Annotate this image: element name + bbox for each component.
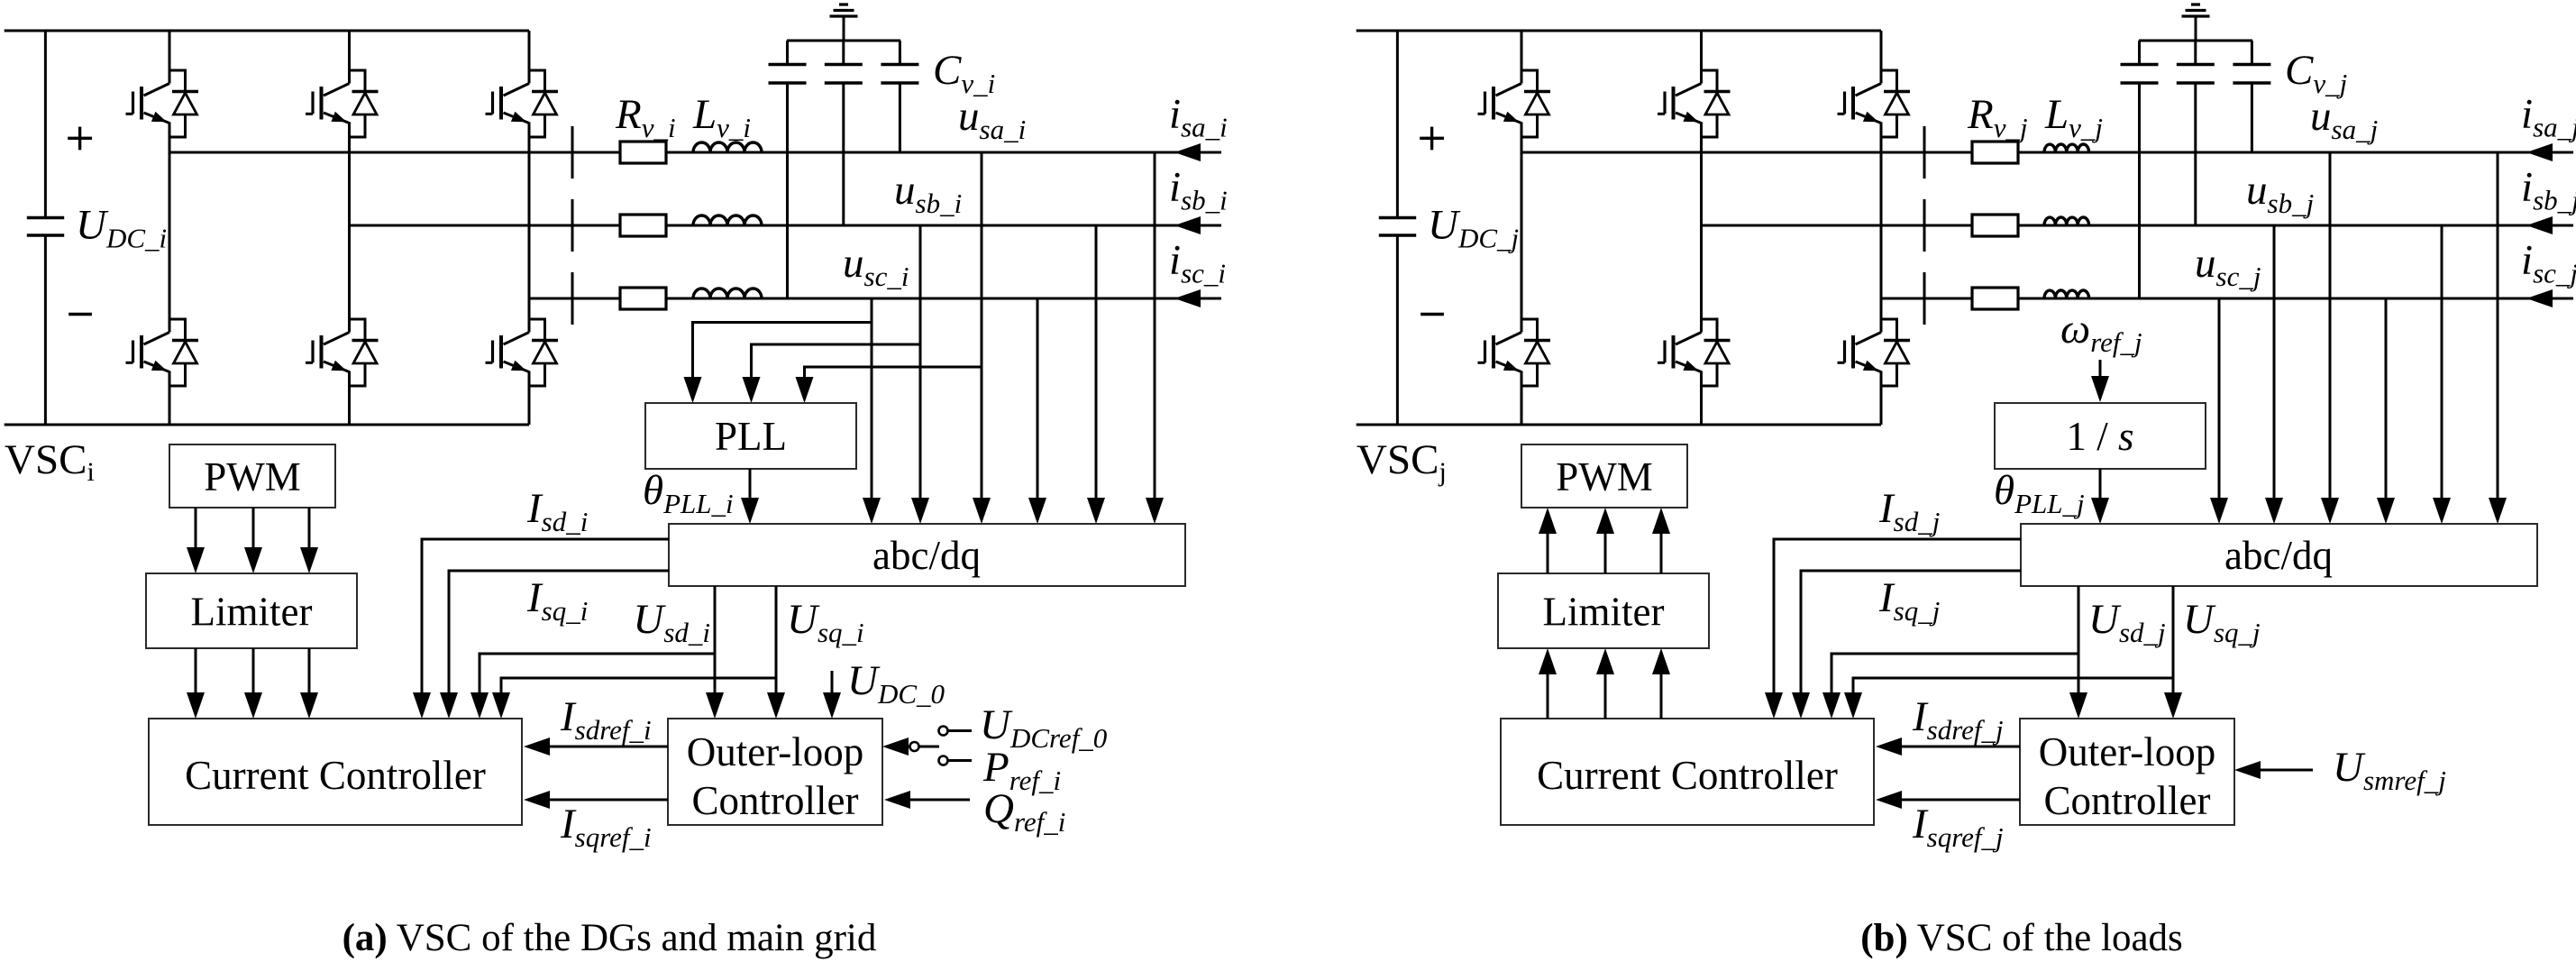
transistor Qia1 (IGBT) [126, 84, 170, 124]
wire: u_sc_i tap to abc/dq [871, 298, 873, 501]
wire: DC bus bottom rail (VSC_j) [1357, 424, 1881, 426]
wire: throw lead U_DCref_0 [948, 729, 973, 732]
wire: Limiter to Current Controller [195, 648, 197, 696]
wire: u_sa_j tap to abc/dq [2329, 152, 2332, 501]
capacitor C_v_i (phase c) [769, 41, 807, 298]
transistor Qib2 (IGBT) [306, 333, 350, 372]
wire: leg a midpoint segment (VSC_j) [1521, 123, 1523, 333]
wire: u_sb_j tap to abc/dq [2273, 225, 2276, 501]
wire: PWM to Limiter [308, 508, 311, 551]
wire: u_sa_i tap to abc/dq [981, 152, 983, 501]
svg-text:(a) VSC of the DGs and main gr: (a) VSC of the DGs and main grid [343, 917, 877, 959]
arrow: reference select into Outer-loop Controller [882, 738, 909, 756]
tick: measuring break phase b (VSC_j) [1923, 199, 1926, 252]
tick: measuring break phase c (VSC_j) [1923, 272, 1926, 325]
arrow: U_sq_i into Outer-loop Controller [767, 692, 785, 719]
arrow: I_sqref_i into Current Controller [524, 791, 550, 809]
arrow: theta_PLL_j into abc/dq [2091, 498, 2109, 524]
arrow: I_sd_j into Current Controller [1765, 692, 1783, 719]
arrow: into PWM [1539, 508, 1557, 534]
svg-text:Limiter: Limiter [1543, 590, 1665, 635]
wire: leg c collector segment (VSC_j) [1880, 31, 1883, 84]
svg-text:PWM: PWM [1556, 454, 1653, 499]
arrow: U_sd_j into Outer-loop Controller [2069, 692, 2087, 719]
wire: I_sqref_i to Current Controller [546, 799, 668, 802]
wire: DC bus bottom rail (VSC_i) [5, 424, 529, 426]
wire: U_smref_j input [2257, 769, 2313, 772]
capacitor U_DC_j (DC link) [1379, 31, 1416, 425]
wire: leg c midpoint segment (VSC_j) [1880, 123, 1883, 333]
arrow: into Limiter [187, 547, 205, 573]
arrow: i_sc_i into abc/dq [1028, 498, 1046, 524]
arrow: i_sa_i into abc/dq [1146, 498, 1164, 524]
arrow: into Current Controller [244, 692, 262, 719]
label - (DC negative) [69, 313, 92, 316]
switch pole contact [910, 742, 919, 751]
arrow: theta_PLL_i into abc/dq [741, 498, 759, 524]
wire: U_sd_j from abc/dq to Outer-loop Controller [2078, 586, 2080, 696]
wire: DC bus top rail (VSC_j) [1357, 30, 1881, 32]
wire: I_sd_i from abc/dq to Current Controller [422, 539, 669, 696]
diode Qic2D (antiparallel) [529, 319, 558, 386]
wire: U_DC_0 input [831, 671, 834, 696]
wire: phase c line (VSC_i) [529, 298, 1221, 300]
block Current Controller [1501, 719, 1874, 825]
arrow: U_smref_j into Outer-loop Controller [2234, 761, 2261, 779]
arrow: u_sb_j into abc/dq [2265, 498, 2283, 524]
wire: leg b collector segment (VSC_i) [348, 31, 351, 84]
arrow: into Limiter [1596, 648, 1614, 674]
diode Qjb1D (antiparallel) [1702, 70, 1731, 137]
arrow: I_sd_i into Current Controller [413, 692, 431, 719]
arrow: u_sa_j into abc/dq [2321, 498, 2339, 524]
svg-text:Controller: Controller [2044, 778, 2211, 823]
transistor Qjc1 (IGBT) [1838, 84, 1882, 124]
arrow: i_sb_i into abc/dq [1087, 498, 1105, 524]
arrow: into Limiter [300, 547, 318, 573]
block Current Controller [149, 719, 522, 825]
capacitor C_v_i (phase b) [825, 41, 863, 225]
wire: U_sd_i from abc/dq to Outer-loop Controller [714, 586, 717, 696]
wire: i_sc_j tap to abc/dq [2385, 298, 2388, 501]
diode Qjb2D (antiparallel) [1702, 319, 1731, 386]
wire: voltage tap to PLL [805, 367, 982, 380]
diode Qib2D (antiparallel) [350, 319, 379, 386]
diode Qia1D (antiparallel) [169, 70, 198, 137]
wire: theta_PLL_j output [2099, 469, 2102, 501]
arrow: I_sq_i into Current Controller [440, 692, 458, 719]
current arrow i_sc_i [1174, 289, 1201, 307]
tick: measuring break phase b (VSC_i) [571, 199, 574, 252]
svg-text:(b) VSC of the loads: (b) VSC of the loads [1860, 917, 2183, 959]
svg-text:Outer-loop: Outer-loop [2039, 729, 2216, 774]
wire: I_sq_i from abc/dq to Current Controller [449, 571, 669, 696]
wire: Q_ref_i input [907, 799, 970, 802]
wire: PWM to Limiter [195, 508, 197, 551]
diode Qja1D (antiparallel) [1521, 70, 1550, 137]
arrow: I_sdref_i into Current Controller [524, 738, 550, 756]
wire: phase b line (VSC_i) [350, 224, 1222, 227]
arrow: into Limiter [244, 547, 262, 573]
wire: theta_PLL_i output [749, 469, 752, 501]
capacitor C_v_j (phase b) [2177, 41, 2215, 225]
wire: leg a midpoint segment (VSC_i) [169, 123, 171, 333]
wire: i_sc_i tap to abc/dq [1037, 298, 1039, 501]
wire: Current Controller to Limiter [1604, 671, 1607, 719]
arrow: into PLL [684, 377, 702, 403]
diode Qib1D (antiparallel) [350, 70, 379, 137]
inductor L_v_j phase b [2044, 217, 2089, 225]
arrow: into PWM [1652, 508, 1670, 534]
transistor Qjc2 (IGBT) [1838, 333, 1882, 372]
arrow: i_sb_j into abc/dq [2433, 498, 2451, 524]
capacitor C_v_i (phase a) [881, 41, 918, 152]
block 1/s integrator [1995, 403, 2206, 469]
block Limiter [146, 573, 357, 648]
wire: i_sb_i tap to abc/dq [1095, 225, 1098, 501]
capacitor U_DC_i (DC link) [27, 31, 64, 425]
label + (DC positive) [1420, 127, 1444, 151]
wire: switch pole lead [905, 746, 910, 748]
inductor L_v_j phase a [2044, 144, 2089, 152]
block Limiter [1498, 573, 1709, 648]
current arrow i_sa_j [2526, 143, 2553, 161]
arrow: into Limiter [1539, 648, 1557, 674]
diode Qjc2D (antiparallel) [1881, 319, 1910, 386]
wire: phase b line (VSC_j) [1702, 224, 2574, 227]
switch throw contact P_ref [939, 756, 948, 765]
arrow: into Current Controller [187, 692, 205, 719]
arrow: U_DC_0 into Outer-loop Controller [823, 692, 841, 719]
diode Qia2D (antiparallel) [169, 319, 198, 386]
block abc/dq [669, 524, 1185, 586]
svg-text:Current Controller: Current Controller [185, 753, 486, 798]
tick: measuring break phase a (VSC_j) [1923, 126, 1926, 179]
transistor Qic2 (IGBT) [486, 333, 530, 372]
wire: Limiter to Current Controller [308, 648, 311, 696]
current arrow i_sb_i [1174, 216, 1201, 234]
label + (DC positive) [68, 127, 92, 151]
wire: u_sc_j tap to abc/dq [2218, 298, 2221, 501]
arrow: into 1/s integrator [2091, 376, 2109, 402]
resistor R_v_j phase a [1972, 142, 2018, 163]
wire: Current Controller to Limiter [1547, 671, 1549, 719]
svg-text:Outer-loop: Outer-loop [687, 729, 864, 774]
arrow: U_sd_i branch into Current Controller [470, 692, 489, 719]
ground (filter bank VSC_j) [2182, 5, 2210, 41]
arrow: U_sd_i into Outer-loop Controller [706, 692, 724, 719]
current arrow i_sa_i [1174, 143, 1201, 161]
block PWM [1521, 444, 1687, 508]
wire: u_sb_i tap to abc/dq [919, 225, 922, 501]
block Outer-loop Controller [668, 719, 882, 825]
arrow: I_sq_j into Current Controller [1792, 692, 1810, 719]
arrow: into Current Controller [300, 692, 318, 719]
svg-text:abc/dq: abc/dq [872, 533, 981, 578]
wire: voltage tap to PLL [693, 323, 872, 381]
wire: leg b midpoint segment (VSC_j) [1700, 123, 1703, 333]
resistor R_v_i phase b [620, 215, 666, 236]
svg-text:VSCj: VSCj [1357, 436, 1447, 487]
transistor Qia2 (IGBT) [126, 333, 170, 372]
wire: U_sq_i branch to Current Controller [501, 678, 776, 696]
current arrow i_sb_j [2526, 216, 2553, 234]
inductor L_v_i phase c [693, 289, 762, 298]
arrow: into PLL [796, 377, 814, 403]
wire: leg a emitter segment (VSC_i) [169, 371, 171, 426]
block abc/dq [2021, 524, 2537, 586]
wire: leg b collector segment (VSC_j) [1700, 31, 1703, 84]
arrow: i_sa_j into abc/dq [2489, 498, 2507, 524]
wire: leg c emitter segment (VSC_i) [528, 371, 531, 426]
wire: capacitor bank bus (VSC_j) [2139, 40, 2252, 42]
transistor Qjb2 (IGBT) [1658, 333, 1702, 372]
resistor R_v_i phase a [620, 142, 666, 163]
arrow: into PWM [1596, 508, 1614, 534]
wire: i_sa_j tap to abc/dq [2497, 152, 2499, 501]
diode Qjc1D (antiparallel) [1881, 70, 1910, 137]
resistor R_v_j phase c [1972, 288, 2018, 309]
capacitor C_v_j (phase a) [2233, 41, 2270, 152]
resistor R_v_i phase c [620, 288, 666, 309]
wire: U_sq_i from abc/dq to Outer-loop Controller [775, 586, 778, 696]
label - (DC negative) [1420, 313, 1444, 316]
arrow: U_sq_j into Outer-loop Controller [2164, 692, 2182, 719]
block Outer-loop Controller [2020, 719, 2234, 825]
wire: I_sdref_i to Current Controller [546, 746, 668, 748]
svg-text:VSCi: VSCi [5, 436, 95, 487]
svg-text:abc/dq: abc/dq [2224, 533, 2333, 578]
wire: leg a emitter segment (VSC_j) [1521, 371, 1523, 426]
wire: capacitor bank bus (VSC_i) [787, 40, 900, 42]
wire: Limiter to Current Controller [252, 648, 255, 696]
capacitor C_v_j (phase c) [2121, 41, 2159, 298]
block PWM [169, 444, 335, 508]
wire: Limiter to PWM [1660, 530, 1663, 573]
wire: throw lead P_ref [948, 759, 973, 762]
transistor Qjb1 (IGBT) [1658, 84, 1702, 124]
transistor Qja1 (IGBT) [1478, 84, 1522, 124]
tick: measuring break phase a (VSC_i) [571, 126, 574, 179]
arrow: I_sqref_j into Current Controller [1876, 791, 1902, 809]
switch blade [919, 746, 940, 748]
wire: I_sdref_j to Current Controller [1898, 746, 2020, 748]
current arrow i_sc_j [2526, 289, 2553, 307]
inductor L_v_i phase a [693, 142, 762, 152]
diode Qic1D (antiparallel) [529, 70, 558, 137]
switch throw contact U_DCref_0 [939, 727, 948, 736]
wire: phase a line (VSC_j) [1521, 151, 2573, 154]
ground (filter bank VSC_i) [830, 5, 858, 41]
svg-text:Current Controller: Current Controller [1537, 753, 1838, 798]
arrow: into PLL [743, 377, 761, 403]
wire: phase c line (VSC_j) [1881, 298, 2573, 300]
wire: DC bus top rail (VSC_i) [5, 30, 529, 32]
wire: leg c midpoint segment (VSC_i) [528, 123, 531, 333]
wire: Current Controller to Limiter [1660, 671, 1663, 719]
wire: U_sq_j from abc/dq to Outer-loop Controller [2172, 586, 2175, 696]
arrow: U_sd_j branch into Current Controller [1822, 692, 1841, 719]
wire: i_sa_i tap to abc/dq [1154, 152, 1156, 501]
wire: leg b midpoint segment (VSC_i) [348, 123, 351, 333]
wire: U_sd_i branch to Current Controller [480, 654, 715, 696]
diode Qja2D (antiparallel) [1521, 319, 1550, 386]
svg-text:PLL: PLL [715, 414, 787, 459]
wire: leg a collector segment (VSC_i) [169, 31, 171, 84]
transistor Qja2 (IGBT) [1478, 333, 1522, 372]
arrow: u_sc_j into abc/dq [2210, 498, 2228, 524]
arrow: i_sc_j into abc/dq [2377, 498, 2395, 524]
arrow: into Limiter [1652, 648, 1670, 674]
wire: omega_ref_j input [2099, 360, 2102, 380]
wire: leg a collector segment (VSC_j) [1521, 31, 1523, 84]
inductor L_v_j phase c [2044, 290, 2089, 298]
wire: I_sqref_j to Current Controller [1898, 799, 2020, 802]
wire: leg c emitter segment (VSC_j) [1880, 371, 1883, 426]
arrow: U_sq_j branch into Current Controller [1844, 692, 1862, 719]
arrow: U_sq_i branch into Current Controller [492, 692, 510, 719]
wire: leg b emitter segment (VSC_j) [1700, 371, 1703, 426]
block PLL [645, 403, 856, 469]
wire: U_sq_j branch to Current Controller [1853, 678, 2173, 696]
arrow: u_sa_i into abc/dq [973, 498, 991, 524]
arrow: I_sdref_j into Current Controller [1876, 738, 1902, 756]
wire: I_sd_j from abc/dq to Current Controller [1774, 539, 2021, 696]
wire: PWM to Limiter [252, 508, 255, 551]
wire: Limiter to PWM [1604, 530, 1607, 573]
wire: phase a line (VSC_i) [169, 151, 1221, 154]
inductor L_v_i phase b [693, 215, 762, 225]
wire: i_sb_j tap to abc/dq [2441, 225, 2444, 501]
wire: leg c collector segment (VSC_i) [528, 31, 531, 84]
wire: U_sd_j branch to Current Controller [1832, 654, 2078, 696]
svg-text:Limiter: Limiter [191, 590, 313, 635]
transistor Qic1 (IGBT) [486, 84, 530, 124]
svg-text:PWM: PWM [204, 454, 301, 499]
tick: measuring break phase c (VSC_i) [571, 272, 574, 325]
resistor R_v_j phase b [1972, 215, 2018, 236]
wire: leg b emitter segment (VSC_i) [348, 371, 351, 426]
svg-text:1 / s: 1 / s [2066, 414, 2133, 459]
arrow: u_sb_i into abc/dq [911, 498, 929, 524]
wire: I_sq_j from abc/dq to Current Controller [1801, 571, 2021, 696]
wire: voltage tap to PLL [752, 344, 921, 380]
transistor Qib1 (IGBT) [306, 84, 350, 124]
svg-text:Controller: Controller [692, 778, 859, 823]
wire: Limiter to PWM [1547, 530, 1549, 573]
arrow: Q_ref_i into Outer-loop Controller [884, 791, 910, 809]
arrow: u_sc_i into abc/dq [863, 498, 881, 524]
